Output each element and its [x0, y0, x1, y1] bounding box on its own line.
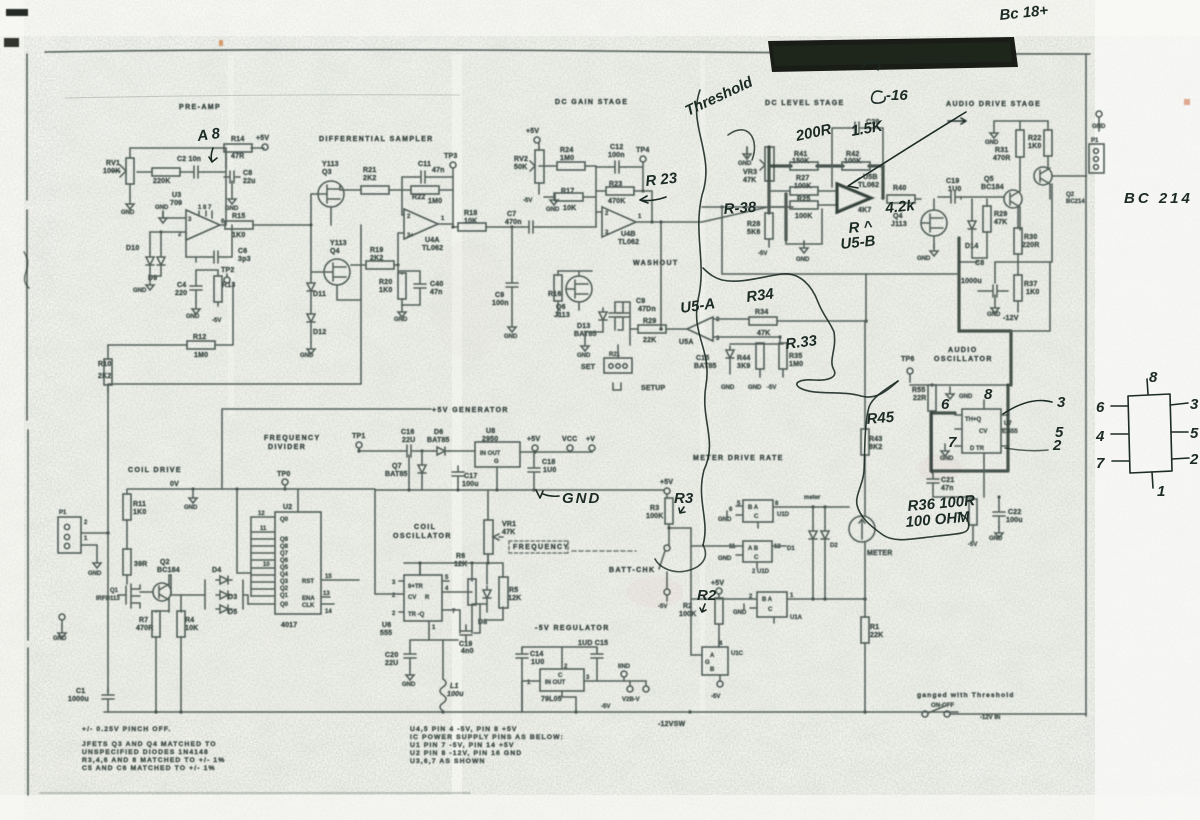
potentiometer VR1 47K — [484, 520, 493, 554]
diode D2 — [821, 527, 829, 543]
top rail reg — [522, 647, 597, 662]
svg-text:-5V: -5V — [523, 198, 532, 204]
bottom faint border — [40, 792, 470, 794]
svg-text:G: G — [494, 459, 499, 465]
svg-text:C8: C8 — [975, 260, 984, 267]
svg-text:3: 3 — [1057, 394, 1066, 411]
svg-text:1M0: 1M0 — [560, 155, 574, 162]
svg-text:1U0: 1U0 — [543, 467, 556, 474]
gnd below P1 — [96, 545, 98, 556]
gnd stub U1B — [726, 511, 728, 517]
svg-text:R37: R37 — [1024, 281, 1037, 288]
resistor 220K — [152, 168, 180, 176]
wires P1 — [81, 533, 108, 545]
IC U7 555 — [962, 409, 1001, 453]
feed bus from rail — [237, 489, 251, 573]
svg-text:FREQUENCY: FREQUENCY — [513, 544, 570, 551]
svg-text:Q4: Q4 — [280, 572, 289, 578]
battery check switch — [664, 545, 670, 551]
wavy cloud left of DC level — [697, 90, 710, 545]
svg-text:IN OUT: IN OUT — [545, 680, 566, 686]
wire U5A lower input — [713, 337, 783, 344]
IC U6 555 — [404, 575, 442, 621]
svg-text:R3: R3 — [650, 505, 659, 512]
svg-text:Q7: Q7 — [280, 551, 289, 557]
svg-text:1K0: 1K0 — [1028, 143, 1041, 150]
svg-text:GND: GND — [562, 490, 601, 507]
JFET Q3 Y113 — [318, 181, 344, 207]
svg-text:Q1: Q1 — [110, 588, 119, 594]
gnd rail — [375, 489, 663, 491]
svg-text:100u: 100u — [1006, 517, 1023, 524]
svg-text:C: C — [558, 673, 563, 679]
svg-text:C7: C7 — [507, 211, 516, 218]
LJ glyph — [613, 383, 621, 390]
svg-text:Q0: Q0 — [280, 517, 289, 523]
page right border line — [1085, 54, 1087, 716]
wire Q3 drain to R21 — [331, 185, 347, 225]
resistor R31 470R — [1016, 130, 1024, 157]
svg-text:C6: C6 — [238, 248, 247, 255]
svg-text:3p3: 3p3 — [238, 256, 251, 263]
svg-text:C19: C19 — [459, 641, 472, 648]
main vertical meter chain — [865, 274, 958, 712]
wires J113 — [916, 199, 934, 248]
svg-text:U4B: U4B — [621, 231, 636, 238]
svg-text:RV1: RV1 — [106, 160, 120, 167]
svg-text:U1C: U1C — [731, 651, 744, 657]
svg-text:+/- 0.25V PINCH OFF.: +/- 0.25V PINCH OFF. — [82, 726, 171, 733]
svg-text:D1: D1 — [787, 546, 795, 552]
diode D1 — [809, 527, 817, 543]
-5V below RV2 — [538, 183, 540, 194]
wires verticals gen — [409, 451, 534, 490]
svg-text:-12V: -12V — [1003, 315, 1019, 322]
hand IC drawing right: box — [1128, 394, 1172, 473]
svg-text:IN OUT: IN OUT — [480, 451, 501, 457]
thick traced loop audio osc — [931, 385, 1008, 471]
wire noninv input — [398, 233, 404, 265]
top-left corner marks — [6, 9, 28, 16]
svg-text:B A: B A — [762, 597, 773, 603]
svg-text:47K: 47K — [757, 330, 770, 337]
svg-text:4: 4 — [1095, 428, 1105, 445]
svg-text:220R: 220R — [1022, 242, 1040, 249]
svg-text:11: 11 — [260, 526, 267, 532]
diode D9 — [157, 253, 165, 269]
svg-text:R29: R29 — [994, 211, 1007, 218]
output node U5B — [881, 196, 885, 200]
svg-text:GND: GND — [155, 205, 169, 211]
svg-text:JFETS Q3 AND Q4 MATCHED TO: JFETS Q3 AND Q4 MATCHED TO — [82, 741, 217, 748]
svg-text:100K: 100K — [679, 611, 697, 618]
wires C19b — [429, 604, 480, 640]
svg-text:11: 11 — [729, 544, 736, 550]
svg-text:D12: D12 — [313, 329, 326, 336]
ground arrow DC gain — [550, 193, 558, 205]
thick trace to audio oscillator — [959, 238, 1011, 385]
svg-text:10K: 10K — [464, 218, 477, 225]
svg-text:FREQUENCY: FREQUENCY — [264, 435, 321, 442]
JFET Q4b J113 audio — [921, 210, 947, 236]
svg-text:C19: C19 — [946, 178, 959, 185]
capacitor C15b 1U0 — [591, 648, 603, 664]
svg-text:GND: GND — [88, 571, 102, 577]
svg-text:22U: 22U — [402, 437, 415, 444]
resistor R6 12K — [468, 579, 476, 605]
pins U7 — [955, 400, 1008, 460]
svg-text:P1: P1 — [1091, 138, 1099, 144]
svg-text:COIL DRIVE: COIL DRIVE — [128, 467, 182, 474]
wires R37 — [1017, 262, 1019, 312]
svg-text:R-38: R-38 — [723, 199, 757, 218]
grounds under R44 R35 — [730, 362, 783, 377]
svg-text:TL062: TL062 — [618, 239, 639, 246]
wires Q6 — [558, 271, 592, 310]
wire opamp out to R15 — [220, 224, 311, 226]
wires R20 C40 — [398, 265, 420, 305]
svg-text:RST: RST — [302, 579, 314, 585]
resistor R19 2K2 — [366, 261, 394, 269]
potentiometer RV1 100K — [126, 158, 134, 184]
resistor R5 12K — [499, 577, 508, 608]
wires R55 — [931, 385, 933, 473]
ground top left — [743, 147, 751, 159]
wires R17 — [544, 196, 596, 198]
svg-text:12: 12 — [258, 511, 265, 517]
feedback wires C11 R22 — [402, 177, 453, 215]
svg-text:R14: R14 — [231, 136, 244, 143]
capacitor C9 100n — [511, 227, 513, 278]
svg-text:C40: C40 — [430, 281, 443, 288]
svg-text:TH+Q: TH+Q — [965, 417, 982, 423]
svg-text:555: 555 — [380, 630, 392, 637]
svg-text:R21: R21 — [609, 352, 621, 358]
capacitor C1 1000u — [102, 689, 114, 705]
resistor R37 1K0 — [1014, 275, 1022, 301]
svg-text:C20: C20 — [385, 652, 398, 659]
node — [396, 263, 399, 266]
FREQUENCY dashed box — [509, 541, 568, 553]
svg-text:100K: 100K — [844, 158, 862, 165]
svg-text:1 8 7: 1 8 7 — [198, 205, 212, 211]
resistor R36 100R — [969, 499, 977, 525]
resistor R27 100K — [790, 187, 818, 195]
svg-text:C: C — [754, 514, 759, 520]
SET box R21 — [604, 358, 632, 373]
wire audio bottom — [1011, 262, 1050, 331]
svg-text:IIND: IIND — [618, 664, 631, 670]
svg-text:C22: C22 — [1008, 509, 1021, 516]
svg-text:GND: GND — [53, 636, 67, 642]
wire gate inputs — [691, 546, 750, 599]
svg-text:A: A — [710, 653, 715, 659]
svg-text:Q4: Q4 — [330, 248, 340, 255]
svg-text:R: R — [425, 595, 430, 601]
wire left column down — [107, 345, 109, 692]
svg-text:P1: P1 — [59, 510, 67, 516]
svg-text:A 8: A 8 — [195, 125, 222, 145]
node dot — [159, 230, 162, 233]
svg-text:4017: 4017 — [281, 622, 297, 629]
capacitor C8 22u — [224, 171, 240, 183]
svg-text:47Dn: 47Dn — [638, 306, 656, 313]
svg-text:C11: C11 — [418, 161, 431, 168]
wire to -12V IN — [950, 713, 1086, 715]
svg-text:U1A: U1A — [790, 615, 803, 621]
wires reg — [522, 664, 630, 712]
annotation 3-16 circled — [872, 91, 885, 103]
resistor R17 10K — [555, 193, 583, 201]
svg-text:VCC: VCC — [562, 436, 577, 443]
svg-text:D TR: D TR — [970, 446, 985, 452]
svg-text:R43: R43 — [869, 436, 882, 443]
svg-text:AUDIO DRIVE STAGE: AUDIO DRIVE STAGE — [946, 101, 1041, 108]
capacitor C4 220u — [190, 280, 202, 296]
svg-text:C9: C9 — [636, 298, 645, 305]
diode D13 — [599, 308, 607, 324]
diode D14 — [968, 217, 976, 233]
diode D10 — [146, 253, 154, 269]
node input — [309, 223, 312, 226]
svg-text:Q8: Q8 — [280, 544, 289, 550]
GND above P1 — [1096, 111, 1102, 117]
diode Q7 BAT85 — [418, 461, 426, 477]
svg-text:4.2k: 4.2k — [884, 197, 916, 217]
svg-text:ON-OFF: ON-OFF — [931, 703, 954, 709]
svg-text:-12V IN: -12V IN — [980, 715, 1000, 721]
svg-text:C: C — [754, 555, 759, 561]
svg-text:1U0: 1U0 — [531, 659, 544, 666]
svg-text:100u: 100u — [447, 691, 464, 698]
svg-text:1K0: 1K0 — [232, 232, 245, 239]
capacitor C19b 4n0 — [460, 625, 472, 641]
svg-text:2K2: 2K2 — [363, 175, 376, 182]
svg-text:1K0: 1K0 — [379, 287, 392, 294]
svg-text:R19: R19 — [370, 247, 383, 254]
gate bus wire — [311, 194, 323, 272]
svg-text:Q3: Q3 — [322, 169, 332, 176]
svg-text:U2 PIN 8 -12V, PIN 16 GND: U2 PIN 8 -12V, PIN 16 GND — [410, 750, 522, 757]
op-amp U5A (tip left) — [687, 317, 713, 341]
wire Q2 collector to ladder — [170, 575, 172, 595]
svg-text:OSCILLATOR: OSCILLATOR — [934, 356, 993, 363]
left pins 6 4 7 — [1111, 405, 1128, 407]
bottom -12V rail — [104, 711, 958, 713]
svg-text:8: 8 — [984, 386, 993, 403]
resistor R7 470R — [152, 611, 160, 637]
svg-text:V2B-V: V2B-V — [622, 697, 640, 703]
svg-text:GND: GND — [546, 207, 560, 213]
svg-text:R20: R20 — [379, 279, 392, 286]
wire D12 to gnd — [310, 326, 312, 342]
-5V below U1C — [717, 681, 723, 687]
potentiometer VR3 47K — [765, 147, 774, 181]
svg-text:R10: R10 — [98, 361, 111, 368]
op-amp U4A TL062 — [404, 209, 438, 239]
resistor R23 470K — [606, 187, 634, 195]
svg-text:CLK: CLK — [302, 603, 315, 609]
resistor R16 — [554, 275, 562, 301]
wires R36 — [972, 497, 974, 541]
svg-text:47R: 47R — [231, 153, 244, 160]
svg-text:8: 8 — [1149, 369, 1158, 386]
svg-text:R40: R40 — [893, 185, 906, 192]
svg-text:100n: 100n — [492, 300, 509, 307]
svg-text:C18: C18 — [542, 459, 555, 466]
svg-text:50K: 50K — [514, 164, 527, 171]
svg-text:1M0: 1M0 — [428, 198, 442, 205]
svg-text:22K: 22K — [870, 632, 883, 639]
wire C19 to Q5 base — [938, 196, 1004, 198]
wire top of 4017 — [297, 489, 299, 512]
capacitor C6 3p3 feedback — [208, 251, 224, 263]
resistor R43 8K2 — [861, 429, 869, 455]
svg-text:22u: 22u — [243, 178, 256, 185]
svg-text:-5V: -5V — [711, 694, 720, 700]
svg-text:-12VSW: -12VSW — [658, 721, 685, 728]
wire C20 — [410, 640, 429, 668]
svg-text:C8: C8 — [243, 170, 252, 177]
svg-text:10K: 10K — [563, 205, 576, 212]
svg-text:R30: R30 — [1024, 234, 1037, 241]
svg-text:+V: +V — [586, 436, 595, 443]
svg-text:GND: GND — [959, 394, 973, 400]
page left border dashed — [27, 54, 28, 795]
wire reg to rail — [521, 681, 523, 712]
svg-text:R44: R44 — [737, 355, 750, 362]
top rail osc — [404, 554, 503, 584]
MOSFET Q1 IRFD113 — [118, 584, 140, 608]
top feedback wire — [832, 128, 883, 187]
svg-text:VR3: VR3 — [743, 169, 757, 176]
wire C2 to node — [204, 148, 226, 225]
svg-text:TP1: TP1 — [352, 433, 365, 440]
wires R24 — [539, 166, 596, 212]
svg-text:D10: D10 — [126, 245, 139, 252]
svg-text:R6: R6 — [456, 553, 465, 560]
hand arrow to U5B — [848, 112, 966, 188]
top rail — [994, 121, 1048, 126]
svg-text:BC214: BC214 — [1066, 199, 1085, 205]
svg-text:METER: METER — [867, 550, 893, 557]
svg-text:RV2: RV2 — [514, 156, 528, 163]
svg-text:6: 6 — [941, 396, 950, 413]
svg-text:47K: 47K — [994, 219, 1007, 226]
resistor R21 2K2 — [361, 186, 389, 194]
svg-text:J113: J113 — [891, 221, 907, 228]
svg-text:100K: 100K — [794, 183, 812, 190]
svg-text:D13: D13 — [577, 323, 590, 330]
svg-text:TP0: TP0 — [277, 471, 290, 478]
wire R3 to node — [669, 524, 691, 545]
svg-text:B A: B A — [748, 505, 759, 511]
svg-text:DIVIDER: DIVIDER — [268, 444, 306, 451]
ground below RV1 — [126, 197, 134, 209]
svg-text:R7: R7 — [139, 617, 148, 624]
ground below C4 — [192, 302, 200, 314]
svg-text:ganged with Threshold: ganged with Threshold — [917, 692, 1015, 699]
capacitor C29 — [849, 122, 865, 134]
left border smudge — [24, 252, 29, 288]
diode D6 BAT85 — [433, 447, 449, 455]
wavy cloud audio oscillator — [857, 381, 969, 540]
svg-text:10K: 10K — [185, 625, 198, 632]
svg-text:J113: J113 — [554, 312, 570, 319]
resistor R28 5K6 — [765, 213, 773, 239]
svg-text:1K0: 1K0 — [1026, 289, 1039, 296]
output wire to R18 — [438, 224, 458, 227]
svg-text:2 U1D: 2 U1D — [752, 569, 770, 575]
svg-text:+5V GENERATOR: +5V GENERATOR — [432, 407, 509, 414]
resistor R25 100K — [790, 201, 818, 209]
svg-text:R22: R22 — [1028, 135, 1041, 142]
svg-text:GND: GND — [186, 314, 200, 320]
svg-text:12K: 12K — [454, 561, 467, 568]
svg-text:R5: R5 — [509, 587, 518, 594]
svg-text:U1 PIN 7 -5V, PIN 14 +5V: U1 PIN 7 -5V, PIN 14 +5V — [410, 742, 515, 749]
555 pins — [399, 565, 449, 630]
svg-text:BAT85: BAT85 — [427, 437, 450, 444]
diode D12 — [307, 310, 315, 326]
diode C15 BAT85 — [726, 346, 734, 362]
svg-text:GND: GND — [225, 206, 239, 212]
svg-text:7: 7 — [948, 434, 957, 451]
capacitor C12 100n — [609, 161, 625, 173]
ground mid — [800, 241, 808, 253]
rail into R25 — [702, 205, 837, 207]
svg-text:2K2: 2K2 — [370, 255, 383, 262]
meter M1 — [849, 516, 875, 542]
svg-text:Q6: Q6 — [280, 558, 289, 564]
wires R29b — [961, 197, 987, 258]
wire R12 — [108, 284, 233, 345]
right pin stubs — [321, 580, 359, 604]
svg-text:+5V: +5V — [526, 128, 539, 135]
svg-text:CV: CV — [408, 595, 416, 601]
svg-text:2: 2 — [1189, 451, 1199, 468]
svg-text:GND: GND — [738, 161, 752, 167]
svg-text:1: 1 — [1157, 483, 1165, 500]
wires Q2 — [140, 575, 171, 612]
svg-text:10: 10 — [263, 562, 270, 568]
wires R28 — [768, 181, 770, 247]
resistor R41 150K — [790, 162, 818, 170]
wire VR1 — [487, 490, 489, 563]
svg-text:1M0: 1M0 — [789, 361, 803, 368]
svg-text:R29: R29 — [643, 318, 656, 325]
svg-text:TP6: TP6 — [901, 356, 914, 363]
wire R9 to Q1 — [126, 575, 128, 584]
svg-text:U1D: U1D — [777, 512, 790, 518]
gnd below C22 — [995, 526, 1003, 538]
resistor R34 47K — [749, 317, 777, 325]
resistor R18 10K — [458, 223, 486, 231]
svg-text:U8: U8 — [486, 428, 495, 435]
svg-text:TP4: TP4 — [636, 147, 649, 154]
svg-text:470R: 470R — [993, 155, 1011, 162]
wires R2 — [718, 624, 720, 647]
svg-text:IC POWER SUPPLY PINS AS BELOW:: IC POWER SUPPLY PINS AS BELOW: — [410, 734, 564, 741]
svg-text:1U0: 1U0 — [948, 186, 961, 193]
feedback box wires — [786, 194, 822, 244]
svg-text:U2: U2 — [283, 504, 292, 511]
svg-text:47K: 47K — [743, 177, 756, 184]
Q4 source bottom wire — [337, 285, 361, 300]
svg-text:U4A: U4A — [425, 237, 440, 244]
svg-text:ENA: ENA — [302, 596, 315, 602]
small arrow — [948, 118, 966, 124]
